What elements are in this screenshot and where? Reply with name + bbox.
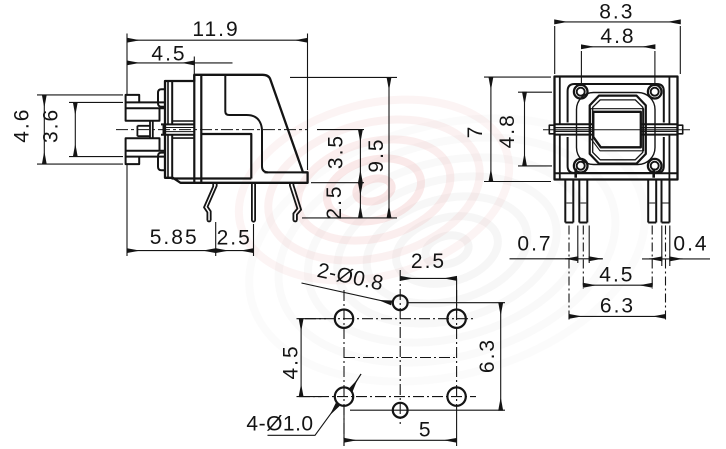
body outline [165, 75, 308, 183]
watermark [218, 71, 674, 423]
svg-text:0.4: 0.4 [673, 233, 708, 256]
legs [565, 180, 669, 223]
svg-text:4.5: 4.5 [279, 344, 302, 379]
inner box [172, 134, 252, 179]
inner recess rounded rect [577, 93, 656, 165]
svg-text:8.3: 8.3 [599, 1, 634, 24]
solid lines through small holes [297, 278, 506, 446]
leg 1 [204, 183, 217, 221]
svg-text:0.7: 0.7 [517, 233, 552, 256]
centerline [543, 129, 690, 131]
below-leg extensions [578, 226, 670, 267]
button [593, 112, 641, 148]
leader 4-d1.0 [268, 407, 336, 436]
svg-text:5: 5 [419, 419, 433, 442]
centerline [116, 129, 308, 131]
4.5 / 6.3 [583, 284, 652, 286]
extension lines [127, 34, 308, 257]
plate rounded rect with shaft gaps [568, 84, 664, 173]
leader 2-d0.8 [302, 283, 392, 303]
svg-text:7: 7 [464, 125, 487, 139]
svg-text:9.5: 9.5 [365, 137, 388, 172]
center block [137, 121, 152, 138]
shaft [161, 124, 194, 134]
svg-text:2.5: 2.5 [217, 227, 252, 250]
0.4 [642, 258, 710, 260]
svg-text:4.5: 4.5 [151, 43, 186, 66]
frame octagon inner [593, 100, 643, 160]
face inner line [167, 81, 169, 178]
frame bottom tabs [576, 169, 654, 178]
body [555, 77, 678, 180]
svg-text:3.6: 3.6 [39, 108, 62, 143]
holes [574, 85, 662, 173]
dim lines with arrows [127, 39, 308, 41]
svg-text:3.5: 3.5 [325, 134, 348, 169]
svg-text:6.3: 6.3 [600, 295, 635, 318]
leg 2 [252, 183, 255, 222]
svg-text:4.5: 4.5 [599, 264, 634, 287]
partition verticals [194, 75, 201, 183]
dash-dot centerlines [299, 270, 476, 446]
svg-text:2.5: 2.5 [411, 250, 446, 273]
holes [335, 295, 466, 417]
bracket foot top line [265, 171, 308, 173]
shaft end stubs [549, 125, 682, 134]
svg-text:5.85: 5.85 [150, 226, 199, 249]
0.7 [510, 258, 604, 260]
svg-text:4.8: 4.8 [600, 25, 635, 48]
shaft [555, 124, 678, 134]
bosses [158, 89, 165, 107]
frame octagon outer [590, 96, 646, 164]
lower stem [126, 138, 165, 164]
inner contour [225, 75, 268, 172]
svg-text:4-Ø1.0: 4-Ø1.0 [246, 413, 313, 436]
svg-text:2.5: 2.5 [323, 184, 346, 219]
svg-text:11.9: 11.9 [192, 18, 239, 41]
leg 3 [290, 183, 301, 221]
upper stem [126, 95, 165, 121]
svg-text:4.8: 4.8 [496, 113, 519, 148]
button thin outline [591, 109, 644, 151]
svg-text:4.6: 4.6 [11, 108, 34, 143]
face outer segments [164, 81, 166, 178]
svg-text:6.3: 6.3 [476, 338, 499, 373]
